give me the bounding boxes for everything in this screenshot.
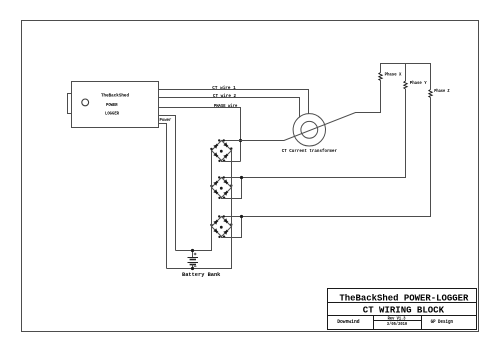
logger side connector tab (68, 94, 72, 114)
wire power + (159, 116, 176, 251)
CT current transformer U2 (293, 114, 325, 146)
svg-text:Battery Bank: Battery Bank (182, 272, 221, 278)
power logger unit (72, 82, 159, 128)
svg-text:TheBackShed: TheBackShed (101, 92, 129, 98)
wire bridge 1 AC loop (222, 161, 241, 162)
logger indicator circle (82, 99, 89, 106)
svg-text:LOGGER: LOGGER (105, 110, 119, 116)
fuse Phase Y (404, 81, 407, 89)
svg-text:Phase Z: Phase Z (434, 89, 450, 94)
svg-text:Phase X: Phase X (385, 73, 402, 78)
wire phase Z down to bridge 3 (222, 98, 431, 217)
battery B1 (188, 251, 199, 269)
bridge rectifier BR1 (212, 141, 232, 161)
bridge rectifier BR3 (212, 217, 232, 237)
bridge rectifier BR2 (212, 178, 232, 198)
junction dot phase wire / bridge 1 line (239, 139, 242, 142)
wire top phase bar (381, 64, 431, 90)
wire DC bus positive (176, 151, 212, 251)
junction dot bridge 2 loop (240, 176, 243, 179)
svg-text:3/05/2010: 3/05/2010 (387, 321, 408, 327)
wire phase Y down to bridge 2 (222, 89, 406, 178)
battery plus mark (194, 253, 197, 256)
svg-text:CT wire 1: CT wire 1 (212, 85, 236, 91)
wire phase Y vertical (405, 64, 407, 82)
svg-text:PHASE wire: PHASE wire (214, 103, 238, 109)
wire bridge 2 AC loop (222, 178, 242, 199)
wire CT wire 2 (159, 98, 300, 118)
junction dot battery bottom (191, 267, 194, 270)
svg-text:CT WIRING BLOCK: CT WIRING BLOCK (363, 306, 445, 316)
svg-text:Downwind: Downwind (337, 319, 359, 325)
svg-text:Rev V1.3: Rev V1.3 (388, 316, 406, 322)
svg-text:TheBackShed POWER-LOGGER: TheBackShed POWER-LOGGER (339, 294, 469, 304)
wire bridge 1 to phase X through CT (222, 81, 381, 141)
wire CT wire 1 (159, 90, 309, 114)
svg-text:CT Current transformer: CT Current transformer (282, 148, 337, 154)
wire PHASE wire (159, 108, 241, 162)
svg-text:CT wire 2: CT wire 2 (213, 93, 236, 99)
svg-text:Phase Y: Phase Y (410, 81, 427, 86)
fuse Phase X (379, 73, 382, 81)
battery minus mark (194, 265, 197, 267)
wire bridge 3 AC loop (222, 217, 242, 238)
svg-text:POWER: POWER (106, 102, 118, 108)
junction dot bridge 3 loop (240, 215, 243, 218)
wire DC bus negative (167, 151, 232, 269)
svg-text:GP Design: GP Design (431, 319, 453, 325)
fuse Phase Z (429, 90, 432, 98)
svg-text:Power: Power (159, 118, 171, 123)
wire power - (159, 124, 167, 269)
title block (328, 289, 477, 330)
junction dot battery top (191, 249, 194, 252)
